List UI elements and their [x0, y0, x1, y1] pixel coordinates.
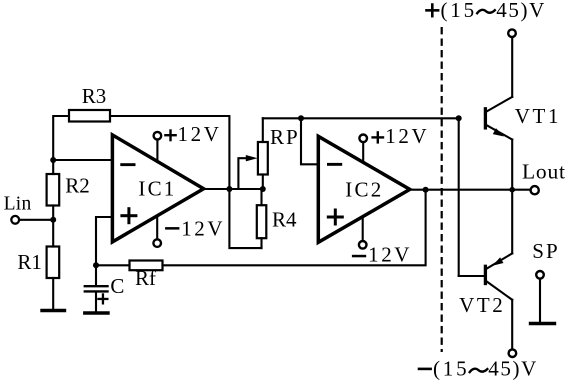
resistor R4: [257, 189, 267, 248]
terminal -(15~45)V: [509, 349, 517, 357]
terminal Lout: [531, 186, 539, 194]
wire output down to R4 bottom: [229, 189, 261, 248]
terminal +(15~45)V: [508, 29, 516, 37]
wire VT1 emitter down to Lout line: [511, 140, 513, 190]
label -(15~45)V: [418, 368, 432, 371]
terminal SP: [536, 271, 544, 322]
svg-text:R4: R4: [272, 208, 297, 232]
node R2/R3/inverting-input junction: [50, 157, 56, 163]
label +12V (IC1): [164, 129, 177, 141]
input terminal Lin: [11, 216, 19, 224]
node bus top junction: [456, 115, 462, 121]
node RP bottom / R4 top junction: [260, 186, 266, 192]
wire emitter junction to VT2 emitter: [511, 190, 513, 254]
svg-text:Lin: Lin: [4, 194, 32, 215]
svg-text:VT2: VT2: [459, 293, 505, 317]
svg-text:45)V: 45)V: [496, 0, 546, 22]
wire RP top to transistor bus: [263, 117, 459, 119]
wire IC1 output: [204, 188, 230, 190]
resistor R2: [47, 160, 60, 220]
svg-text:R1: R1: [17, 250, 42, 274]
C polarity plus: [97, 293, 108, 304]
resistor Rf: [96, 261, 163, 271]
wire branch down to IC2 inverting input: [301, 118, 318, 164]
node branch to IC2 inverting input: [298, 115, 304, 121]
ground below R1: [42, 309, 65, 312]
wire VT2 base: [459, 275, 484, 277]
wire VT2 collector to -supply: [511, 300, 513, 350]
wire IC2 output to Lout: [410, 189, 531, 191]
node IC2 output junction: [423, 187, 429, 193]
wire output to RP bottom node: [229, 188, 262, 190]
svg-text:Rf: Rf: [135, 266, 156, 290]
label -12V (IC1): [165, 227, 179, 230]
svg-text:IC2: IC2: [345, 177, 383, 201]
svg-text:SP: SP: [532, 239, 559, 263]
wire node to IC1 inverting input: [53, 159, 112, 161]
node Lin/R1/R2 junction: [50, 217, 56, 223]
svg-text:(15: (15: [433, 357, 469, 381]
node IC1 output junction: [226, 186, 232, 192]
ground bar SP: [531, 322, 555, 325]
svg-text:Lout: Lout: [522, 160, 566, 184]
wire VT1 collector to +supply: [511, 37, 513, 97]
svg-text:VT1: VT1: [515, 104, 561, 128]
IC2 minus sign: [327, 163, 342, 166]
svg-text:12V: 12V: [178, 122, 222, 146]
wire R3 to IC1 output: [110, 116, 229, 189]
transistor VT1: [485, 97, 512, 140]
wire Lin to node: [19, 219, 53, 221]
dashed partition line: [441, 27, 443, 352]
transistor VT2: [485, 253, 512, 299]
svg-text:12V: 12V: [385, 124, 429, 148]
svg-text:(15: (15: [441, 0, 477, 22]
potentiometer RP: [258, 118, 268, 189]
svg-text:RP: RP: [270, 125, 300, 149]
capacitor C: [85, 265, 108, 310]
ground below C: [85, 311, 108, 314]
IC2 +12V pin: [359, 135, 367, 163]
resistor R3: [53, 110, 110, 160]
svg-text:R3: R3: [82, 84, 107, 108]
wire IC1 non-inverting input: [96, 217, 112, 265]
IC1 plus sign: [120, 207, 137, 224]
IC1 +12V pin: [154, 132, 162, 162]
svg-text:R2: R2: [65, 174, 90, 198]
svg-text:45)V: 45)V: [488, 357, 538, 381]
wire feedback bottom: [163, 190, 426, 266]
node emitter junction on Lout line: [509, 187, 515, 193]
svg-text:12V: 12V: [181, 216, 225, 240]
svg-text:12V: 12V: [368, 242, 412, 266]
IC2 -12V pin: [359, 217, 367, 249]
label -12V (IC2): [352, 255, 366, 257]
IC2 plus sign: [327, 209, 344, 226]
RP wiper arrow: [238, 155, 262, 189]
IC1 minus sign: [120, 163, 135, 166]
resistor R1: [47, 220, 60, 309]
svg-text:C: C: [110, 274, 124, 298]
IC1 -12V pin: [153, 216, 161, 247]
op-amp IC1: [112, 135, 203, 242]
node C/Rf junction: [93, 262, 99, 268]
wire bus vertical: [458, 118, 460, 276]
label +12V (IC2): [371, 131, 384, 143]
svg-text:IC1: IC1: [138, 177, 176, 201]
op-amp IC2: [318, 136, 410, 242]
label +(15~45)V: [425, 3, 439, 17]
